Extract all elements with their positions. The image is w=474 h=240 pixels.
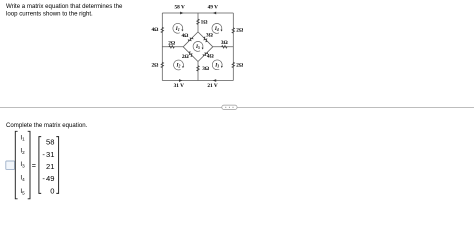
answer input box (6, 161, 15, 169)
svg-text:31 V: 31 V (174, 83, 185, 89)
resistor 3ohm mid-horiz-right (222, 46, 227, 49)
svg-text:2Ω: 2Ω (182, 54, 189, 60)
loop current I1 (173, 23, 184, 33)
voltage source arrow 49V (points left) (213, 12, 216, 15)
voltage source arrow 58V (points right) (180, 12, 183, 15)
wire: middle vertical bottom (diamond to node bottom) (197, 62, 199, 81)
svg-text:0: 0 (50, 186, 54, 195)
svg-text:2Ω: 2Ω (168, 40, 175, 46)
wire: diamond edge top-left (183, 32, 198, 47)
svg-text:loop currents shown to the rig: loop currents shown to the right. (6, 11, 93, 18)
svg-text:4Ω: 4Ω (152, 27, 159, 33)
RHS vector left bracket (39, 137, 41, 194)
wire: middle vertical top (node top to diamond) (197, 13, 199, 32)
svg-text:31: 31 (46, 150, 54, 159)
svg-text:2Ω: 2Ω (152, 63, 159, 69)
svg-text:58: 58 (46, 138, 54, 147)
wire: outer bottom (162, 80, 233, 82)
wire: middle horizontal left (left node to diamond) (162, 46, 183, 48)
resistor 4ohm diamond top-left (188, 37, 193, 41)
svg-text:3Ω: 3Ω (221, 40, 228, 46)
loop current I3 (212, 60, 223, 70)
resistor 4ohm diamond bottom-right (203, 52, 208, 56)
wire: outer left (161, 13, 163, 81)
resistor 2ohm right-bottom (232, 62, 235, 67)
current vector left bracket (15, 131, 17, 199)
resistor 4ohm left-top (161, 27, 164, 32)
voltage source arrow 21V (points left) (213, 79, 216, 82)
svg-text:Complete the matrix equation.: Complete the matrix equation. (6, 122, 88, 129)
ellipsis pill button (222, 105, 237, 109)
resistor 2ohm mid-horiz-left (169, 46, 174, 49)
wire: outer right (232, 13, 234, 81)
current vector right bracket (28, 131, 30, 199)
resistor 1ohm middle-top (197, 19, 200, 24)
svg-text:49: 49 (46, 174, 54, 183)
svg-text:4Ω: 4Ω (207, 54, 214, 60)
resistor 3ohm diamond top-right (203, 37, 207, 42)
resistor 2ohm right-top (232, 28, 235, 33)
wire: middle horizontal right (diamond to right node) (213, 46, 234, 48)
svg-text:2Ω: 2Ω (236, 62, 243, 68)
svg-text:=: = (32, 161, 36, 170)
loop current I2 (174, 60, 185, 70)
resistor 2ohm diamond bottom-left (189, 52, 193, 57)
svg-text:21 V: 21 V (207, 83, 218, 89)
svg-text:3Ω: 3Ω (206, 33, 213, 39)
voltage source arrow 31V (points right) (179, 79, 182, 82)
loop current I5 (193, 41, 204, 51)
loop current I4 (212, 23, 223, 33)
resistor 2ohm left-bottom (161, 62, 164, 67)
divider line (0, 107, 474, 109)
svg-text:1Ω: 1Ω (201, 20, 208, 26)
wire: diamond edge top-right (198, 32, 213, 47)
svg-text:4Ω: 4Ω (181, 33, 188, 39)
svg-text:Write a matrix equation that d: Write a matrix equation that determines … (6, 3, 123, 10)
svg-text:21: 21 (46, 162, 54, 171)
wire: diamond edge bottom-right (198, 47, 213, 62)
wire: diamond edge bottom-left (183, 47, 198, 62)
svg-text:2Ω: 2Ω (236, 28, 243, 34)
resistor 3ohm middle-bottom (197, 66, 200, 71)
svg-text:58 V: 58 V (175, 5, 186, 11)
svg-text:3Ω: 3Ω (202, 66, 209, 72)
wire: outer top (162, 12, 233, 14)
RHS vector right bracket (56, 137, 58, 194)
svg-text:49 V: 49 V (208, 5, 219, 11)
